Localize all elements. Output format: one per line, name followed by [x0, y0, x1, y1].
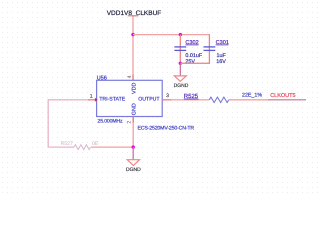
wire R527 left lead — [48, 146, 74, 148]
svg-text:4: 4 — [127, 75, 133, 78]
svg-text:TRI-STATE: TRI-STATE — [99, 96, 126, 102]
pin 3 stub — [162, 99, 171, 101]
svg-text:CLKOUT5: CLKOUT5 — [270, 93, 295, 99]
wire bottom cap bus — [180, 62, 210, 64]
pin 2 stub U56 GND — [132, 117, 134, 123]
power symbol VDD1V8_CLKBUF — [107, 10, 162, 17]
svg-text:U56: U56 — [97, 76, 107, 82]
wire C301 lead — [208, 35, 210, 64]
svg-text:16V: 16V — [216, 59, 226, 65]
junction at C302 top — [179, 33, 182, 36]
resistor R525 — [209, 97, 228, 102]
ground DGND2 — [126, 160, 141, 174]
wire pin3 to R525 — [172, 99, 210, 101]
wire TRI-STATE net left and down — [48, 100, 88, 147]
svg-text:ECS-2520MV-250-CN-TR: ECS-2520MV-250-CN-TR — [138, 125, 195, 131]
svg-text:DGND: DGND — [174, 83, 189, 89]
svg-text:R527: R527 — [61, 141, 74, 147]
pin 4 stub U56 VDD — [132, 75, 134, 81]
wire R525 to CLKOUT5 — [229, 99, 306, 101]
capacitor C302 — [174, 47, 186, 51]
oscillator U56 — [97, 76, 163, 117]
svg-text:GND: GND — [132, 103, 138, 115]
svg-text:VDD: VDD — [132, 83, 138, 94]
svg-text:2: 2 — [126, 121, 132, 124]
wire VDD1V8 vertical to U56 pin 4 — [132, 17, 134, 75]
svg-text:3: 3 — [166, 93, 169, 99]
svg-text:25V: 25V — [185, 59, 195, 65]
wire GND down — [132, 123, 134, 148]
capacitor C301 — [204, 47, 216, 51]
svg-text:OUTPUT: OUTPUT — [138, 96, 160, 102]
label C302 — [185, 40, 198, 46]
svg-text:DGND: DGND — [126, 167, 141, 173]
junction at VDD branch — [131, 33, 134, 36]
wire dim tail under CLKOUT5 — [268, 99, 306, 101]
label C301 — [216, 40, 229, 46]
wire VDD branch horizontal to capacitors — [133, 34, 210, 36]
wire R527 to GND junction — [91, 146, 133, 148]
value 0.01uF 25V — [185, 53, 202, 65]
ground DGND1 — [174, 76, 189, 89]
svg-text:1: 1 — [90, 93, 93, 99]
junction at C302 bottom — [179, 62, 182, 65]
value 1uF 16V — [216, 53, 226, 65]
svg-text:25.000MHz: 25.000MHz — [98, 119, 124, 125]
wire to DGND2 — [132, 147, 134, 160]
resistor R527 (no stuff, dimmed) — [61, 141, 99, 150]
pin 1 stub with input arrow — [88, 98, 98, 102]
svg-text:0E: 0E — [92, 141, 99, 147]
svg-text:22E_1%: 22E_1% — [242, 93, 262, 99]
wire to DGND1 — [179, 63, 181, 76]
junction at GND — [132, 145, 135, 148]
wire C302 lead — [179, 35, 181, 64]
label R525 — [184, 93, 199, 100]
